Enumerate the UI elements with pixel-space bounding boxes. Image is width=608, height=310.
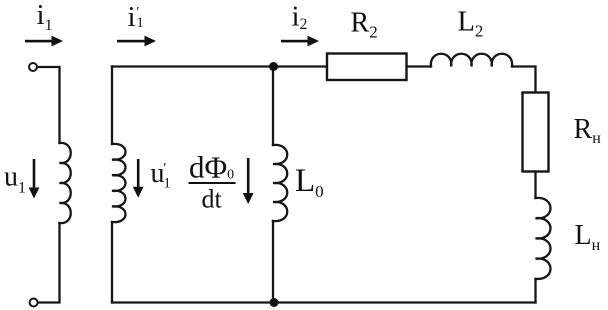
voltage arrow u1 [29,159,40,199]
wire [512,67,536,93]
current arrow i2 [281,36,319,47]
wire [111,67,113,145]
svg-text:dt: dt [202,185,223,214]
svg-text:Lн: Lн [575,220,601,254]
svg-text:Rн: Rн [574,114,602,147]
emf arrow dPhi0/dt [243,158,254,204]
wire: bottom bus [112,301,536,303]
wire [407,65,432,67]
current arrow i1 [25,36,63,47]
svg-text:L2: L2 [458,7,484,41]
svg-text:′: ′ [163,161,166,177]
wire [272,67,274,146]
svg-text:dΦ0: dΦ0 [189,150,234,185]
svg-text:i1: i1 [37,0,53,34]
svg-text:1: 1 [137,15,144,31]
svg-text:R2: R2 [351,8,378,42]
svg-text:L0: L0 [295,163,324,201]
node (top) [269,62,278,71]
resistor RH (load) [523,93,549,172]
wire [37,67,60,143]
svg-text:i: i [128,1,136,33]
resistor R2 [327,54,407,81]
wire [534,172,536,199]
inductor L2 [431,54,512,67]
terminal: primary bottom [30,299,38,307]
inductor LH (load) [536,198,551,279]
wire [111,222,113,303]
wire [272,221,274,303]
wire [37,223,59,303]
wire [534,279,536,303]
label dPhi0/dt (fraction) [189,150,236,214]
inductor L0 [273,145,287,221]
svg-text:u1: u1 [4,162,26,197]
svg-text:i2: i2 [292,1,308,34]
inductor L1 (primary winding) [60,143,71,223]
terminal: primary top [29,63,37,71]
wire [112,65,327,67]
svg-text:1: 1 [164,176,171,192]
node (bottom) [270,298,279,307]
voltage arrow u1' [133,159,144,198]
current arrow i1' [117,36,156,47]
inductor: magnetizing branch u1' [112,144,126,222]
